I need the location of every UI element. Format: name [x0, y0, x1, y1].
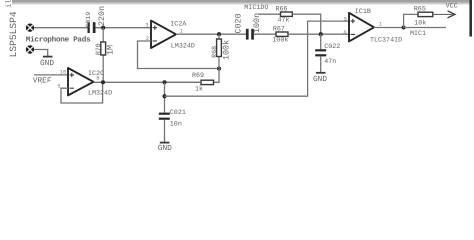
svg-text:R67: R67	[273, 25, 285, 33]
wire IC2A pin2 feedback	[138, 41, 220, 69]
svg-text:100n: 100n	[252, 13, 262, 33]
svg-text:1: 1	[180, 28, 183, 34]
svg-text:100k: 100k	[272, 37, 288, 45]
power VCC arrow	[433, 2, 458, 18]
svg-text:VCC: VCC	[446, 2, 458, 10]
svg-text:il: il	[5, 0, 14, 8]
node junction IC1B out	[402, 25, 406, 29]
net MIC1	[404, 28, 446, 39]
svg-text:C019: C019	[85, 12, 92, 28]
svg-text:R68: R68	[211, 46, 218, 58]
ground GND (C022)	[313, 73, 327, 84]
svg-text:R69: R69	[192, 72, 204, 80]
wire C020 to R67	[254, 33, 276, 35]
svg-text:TLC374ID: TLC374ID	[370, 37, 402, 45]
resistor R69 1k	[165, 69, 220, 94]
node junction IC2C out / R70	[101, 80, 105, 84]
wire C019 to IC2A pin3	[96, 27, 152, 29]
frame right bar	[469, 0, 472, 37]
svg-text:220n: 220n	[97, 6, 107, 26]
resistor R67 100k	[272, 25, 288, 44]
wire R67 to IC1B pin6	[288, 33, 349, 35]
resistor R66 47k	[276, 6, 293, 25]
svg-text:LM324D: LM324D	[171, 43, 195, 51]
node junction R68 top	[217, 32, 221, 36]
resistor R68 100k	[211, 34, 232, 68]
svg-text:9: 9	[57, 84, 60, 90]
wire ref to IC1B pin5	[165, 21, 350, 96]
svg-text:GND: GND	[158, 144, 172, 153]
frame top bar	[12, 0, 470, 3]
svg-text:R65: R65	[414, 5, 426, 13]
comparator IC1B TLC374ID	[343, 8, 402, 44]
svg-text:R66: R66	[276, 6, 288, 14]
node junction ref branch	[162, 94, 166, 98]
wire R66 to pin6 node	[292, 14, 320, 34]
wire IC2A output	[176, 33, 246, 35]
svg-text:10n: 10n	[170, 121, 182, 129]
wire IC1B output	[374, 27, 404, 29]
svg-text:IC2C: IC2C	[88, 70, 104, 78]
svg-text:47n: 47n	[324, 58, 336, 66]
svg-text:IC2A: IC2A	[170, 21, 187, 29]
svg-text:47k: 47k	[278, 17, 290, 25]
svg-text:1: 1	[379, 22, 382, 28]
svg-text:1k: 1k	[195, 85, 203, 93]
wire IC2C pin9 feedback	[61, 82, 103, 103]
svg-text:MIC1DO: MIC1DO	[244, 4, 268, 12]
wire IC2C output	[94, 81, 202, 83]
svg-text:3: 3	[145, 22, 148, 28]
wire LSP4 to C019	[34, 27, 87, 29]
svg-text:C020: C020	[234, 13, 244, 33]
net MIC1DO	[244, 4, 280, 14]
resistor R70 1M	[95, 28, 116, 83]
capacitor C021 10n	[159, 109, 186, 142]
svg-text:10: 10	[60, 70, 66, 76]
ground GND (LSP5)	[40, 57, 54, 68]
svg-text:R70: R70	[95, 43, 102, 55]
capacitor C022 47n	[315, 34, 340, 72]
pad LSP5	[8, 34, 34, 57]
node junction pin6	[319, 32, 323, 36]
pad LSP4	[8, 11, 34, 34]
net VREF	[33, 75, 68, 86]
node junction feedback	[217, 66, 221, 70]
wire LSP5 to ground	[34, 50, 48, 57]
capacitor C020 100n	[234, 13, 263, 40]
op-amp IC2C LM324D	[57, 68, 112, 98]
svg-text:MIC1: MIC1	[410, 30, 426, 38]
svg-text:GND: GND	[40, 59, 54, 68]
node junction C019/R70	[101, 26, 105, 30]
svg-text:IC1B: IC1B	[355, 8, 371, 16]
ground GND (C021)	[158, 143, 172, 154]
svg-text:LM324D: LM324D	[88, 90, 112, 98]
svg-text:Microphone Pads: Microphone Pads	[26, 36, 91, 45]
wire down to C021	[164, 82, 166, 113]
node junction C021	[162, 80, 166, 84]
svg-text:LSP4: LSP4	[8, 11, 19, 34]
capacitor C019 220n	[85, 6, 107, 33]
op-amp IC2A LM324D	[145, 21, 195, 51]
svg-text:GND: GND	[313, 75, 327, 84]
svg-text:10k: 10k	[414, 19, 426, 27]
svg-text:C021: C021	[170, 109, 186, 117]
svg-text:VREF: VREF	[33, 77, 52, 86]
svg-text:5: 5	[344, 17, 347, 23]
svg-text:C022: C022	[324, 43, 340, 51]
svg-text:100k: 100k	[222, 40, 232, 60]
wire up to R65	[404, 14, 418, 27]
resistor R65 10k	[414, 5, 433, 27]
svg-text:1M: 1M	[106, 45, 116, 55]
svg-text:6: 6	[343, 30, 346, 36]
svg-text:LSP5: LSP5	[8, 34, 19, 57]
